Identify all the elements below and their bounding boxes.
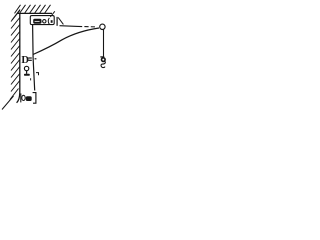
svg-text:D: D	[21, 55, 29, 66]
